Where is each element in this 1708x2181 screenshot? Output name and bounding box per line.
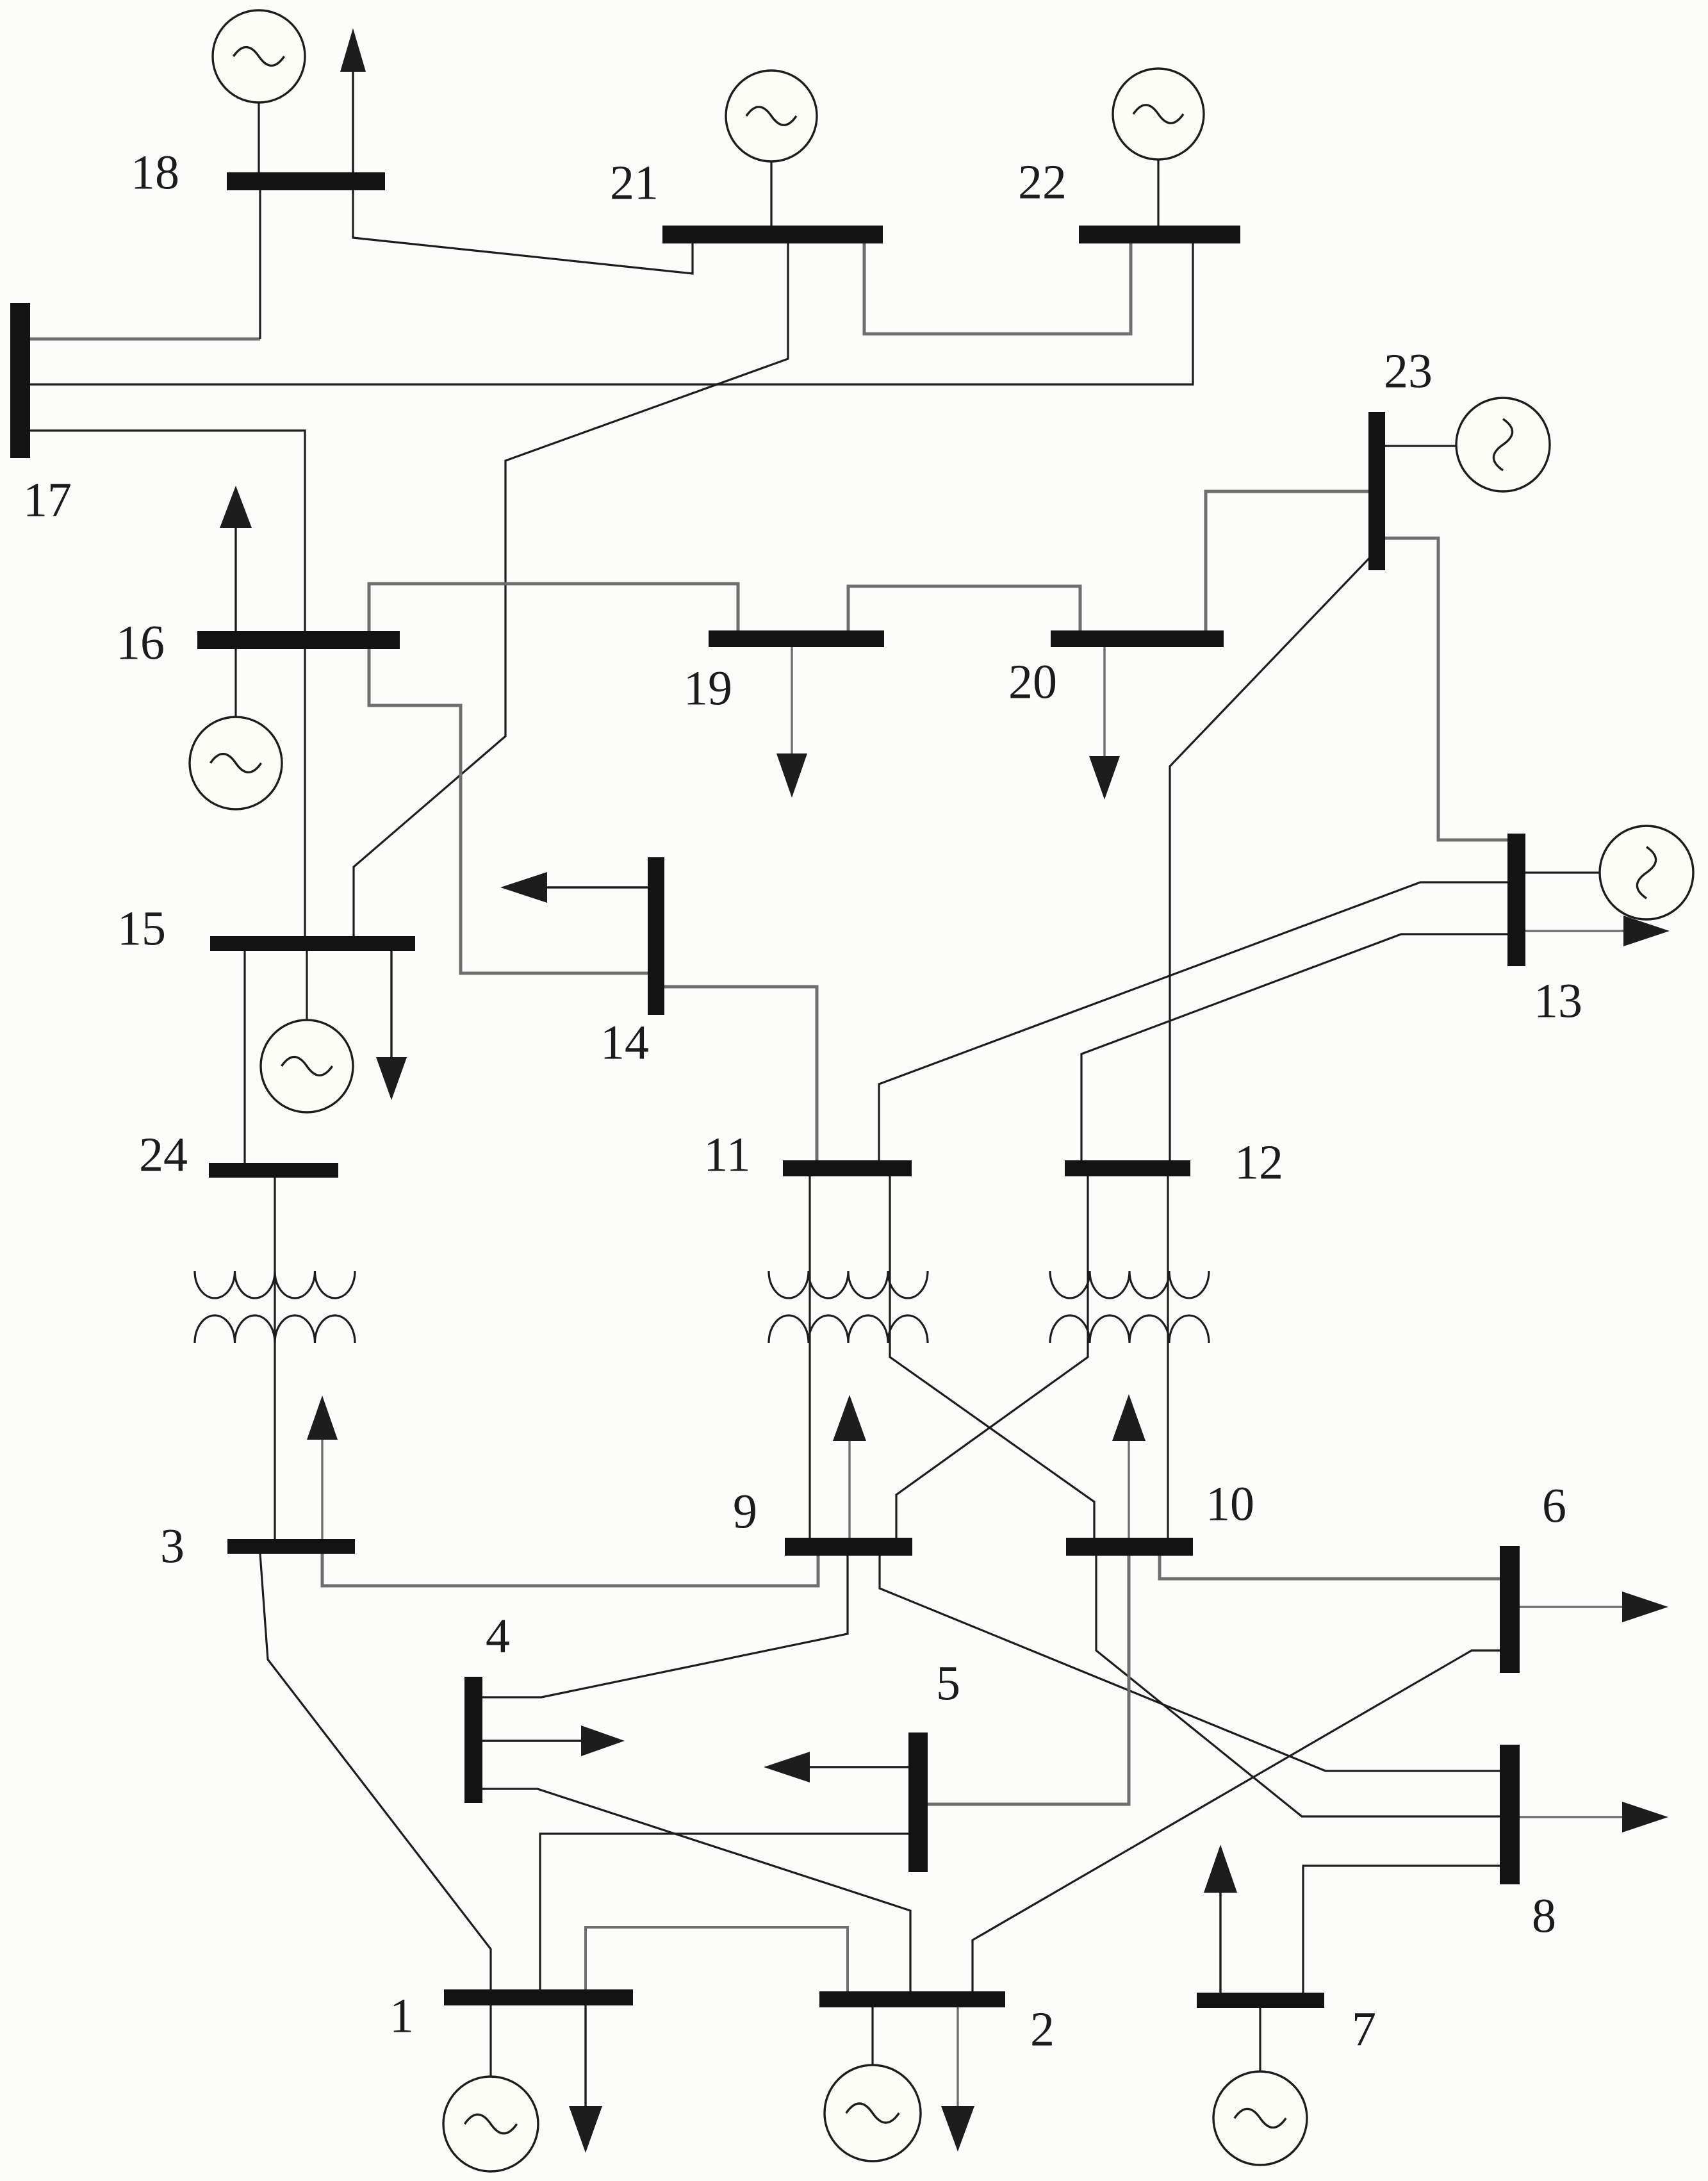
svg-text:24: 24	[139, 1128, 188, 1181]
svg-text:10: 10	[1206, 1477, 1254, 1531]
load arrow bus 9	[833, 1395, 866, 1538]
generator at bus 18	[213, 10, 305, 103]
bus 18	[227, 172, 385, 190]
bus 3	[227, 1539, 355, 1554]
wire generator lead bus 18	[258, 103, 259, 172]
svg-text:7: 7	[1352, 2002, 1376, 2056]
load arrow bus 19	[776, 647, 807, 798]
generator at bus 1	[443, 2077, 538, 2171]
wire 20-23	[1206, 491, 1368, 630]
generator at bus 15	[261, 1020, 353, 1112]
bus 24	[209, 1163, 338, 1178]
transformer 9/10-12	[1050, 1271, 1209, 1343]
bus 20	[1051, 630, 1224, 647]
svg-text:14: 14	[600, 1016, 649, 1069]
wire 3-9	[322, 1554, 818, 1586]
load arrow bus 7	[1204, 1845, 1237, 1995]
wire 17-22	[30, 243, 1193, 384]
bus 14	[648, 857, 664, 1015]
wire 11-10 transformer lead	[890, 1176, 1094, 1538]
svg-text:13: 13	[1534, 974, 1582, 1028]
svg-text:16: 16	[116, 616, 165, 670]
load arrow bus 15	[376, 951, 407, 1100]
transformer 3-24	[195, 1271, 355, 1343]
wire generator lead bus 13	[1525, 871, 1600, 873]
generator at bus 23	[1456, 398, 1550, 491]
wire generator lead bus 21	[770, 161, 772, 226]
wire 5-10	[928, 1538, 1129, 1804]
bus 8	[1500, 1745, 1520, 1884]
bus 19	[709, 630, 884, 647]
bus 17	[10, 303, 30, 458]
bus 15	[210, 936, 415, 951]
svg-text:12: 12	[1235, 1135, 1283, 1189]
bus 22	[1079, 226, 1240, 243]
generator at bus 16	[190, 717, 282, 809]
bus 7	[1197, 1993, 1324, 2008]
bus 12	[1065, 1160, 1190, 1176]
wire 16-17	[30, 431, 305, 631]
svg-text:8: 8	[1532, 1889, 1556, 1943]
wire 16-19	[369, 584, 738, 631]
svg-text:23: 23	[1384, 344, 1433, 398]
generator at bus 13	[1600, 826, 1693, 919]
svg-text:15: 15	[117, 901, 166, 955]
wire 13-23	[1385, 538, 1507, 840]
svg-text:4: 4	[486, 1609, 510, 1663]
svg-text:9: 9	[733, 1485, 757, 1538]
bus 6	[1500, 1546, 1520, 1673]
wire generator lead bus 22	[1157, 160, 1159, 226]
wire 7-8	[1303, 1866, 1500, 1995]
svg-text:3: 3	[160, 1519, 185, 1573]
wire 1-5	[540, 1834, 908, 1989]
wire 11-14	[664, 987, 817, 1160]
bus 13	[1507, 834, 1525, 966]
svg-text:20: 20	[1008, 655, 1057, 709]
wire generator lead bus 1	[489, 2005, 491, 2077]
bus 16	[197, 631, 400, 649]
wire generator lead bus 16	[234, 649, 236, 718]
wire 19-20	[848, 586, 1080, 630]
wire 17-18	[30, 338, 260, 341]
generator at bus 22	[1113, 69, 1204, 160]
transformer 9/10-11	[769, 1271, 928, 1343]
bus 11	[783, 1160, 912, 1176]
load arrow bus 18	[340, 28, 366, 172]
wire 12-10 transformer lead	[1167, 1176, 1169, 1538]
wire 2-4	[482, 1789, 910, 1991]
wire 24-3 transformer lead	[274, 1178, 275, 1539]
load arrow bus 1	[569, 2005, 602, 2153]
wire 21-22	[864, 243, 1131, 334]
bus 4	[464, 1677, 482, 1803]
svg-text:5: 5	[936, 1656, 960, 1710]
svg-text:1: 1	[390, 1989, 414, 2043]
svg-text:21: 21	[610, 156, 659, 210]
load arrow bus 16	[220, 486, 252, 631]
wire 8-9	[880, 1556, 1500, 1771]
generator at bus 2	[825, 2065, 921, 2161]
svg-text:6: 6	[1542, 1479, 1566, 1533]
wire 15-21	[354, 243, 788, 936]
wire 12-13	[1081, 934, 1507, 1160]
wire generator lead bus 7	[1259, 2008, 1261, 2072]
load arrow bus 6	[1520, 1592, 1668, 1622]
svg-text:19: 19	[684, 661, 732, 715]
wire 1-3	[260, 1554, 491, 1989]
bus 5	[908, 1732, 928, 1872]
load arrow bus 5	[764, 1752, 908, 1782]
svg-text:17: 17	[23, 473, 72, 527]
wire 4-9	[482, 1556, 848, 1697]
wire generator lead bus 15	[306, 951, 308, 1021]
svg-text:18: 18	[131, 145, 179, 199]
wire 8-10	[1096, 1556, 1500, 1816]
wire 12-9 transformer lead	[896, 1176, 1088, 1538]
wire 16-14	[369, 649, 648, 973]
svg-text:11: 11	[703, 1128, 750, 1181]
generator at bus 21	[726, 70, 817, 161]
load arrow bus 13	[1525, 916, 1670, 946]
bus 9	[785, 1538, 912, 1556]
bus 2	[819, 1991, 1005, 2007]
wire 15-16	[304, 649, 306, 936]
wire 2-6	[973, 1650, 1500, 1991]
svg-text:22: 22	[1018, 155, 1067, 209]
bus 10	[1066, 1538, 1193, 1556]
wire 12-23	[1170, 552, 1375, 1160]
wire 18-21	[353, 190, 693, 274]
wire 15-24	[243, 951, 245, 1163]
load arrow bus 2	[941, 2006, 974, 2152]
load arrow bus 8	[1520, 1802, 1668, 1832]
bus 23	[1368, 412, 1385, 570]
load arrow bus 14	[500, 872, 648, 903]
load arrow bus 10	[1112, 1394, 1146, 1538]
wire generator lead bus 23	[1385, 445, 1457, 447]
bus 1	[444, 1989, 633, 2005]
bus 21	[662, 226, 883, 243]
load arrow bus 3	[307, 1395, 338, 1539]
wire 1-2	[586, 1927, 848, 1991]
load arrow bus 20	[1089, 647, 1120, 800]
wire generator lead bus 2	[871, 2006, 873, 2066]
wire 11-13	[879, 882, 1507, 1160]
wire 6-10	[1160, 1556, 1500, 1579]
generator at bus 7	[1213, 2071, 1307, 2165]
load arrow bus 4	[482, 1725, 625, 1756]
wire 11-9 transformer lead	[809, 1176, 810, 1538]
svg-text:2: 2	[1030, 2002, 1055, 2056]
